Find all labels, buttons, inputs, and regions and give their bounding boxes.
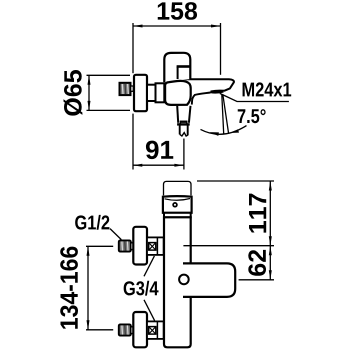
dim line 117	[269, 181, 272, 246]
lower union G3/4	[147, 321, 164, 339]
upper wall flange	[133, 227, 147, 265]
dim line 134-166	[87, 246, 90, 329]
lever handle (side view)	[164, 53, 190, 83]
label M24x1	[243, 82, 292, 96]
label G3/4	[124, 281, 159, 296]
extension lines D65	[87, 75, 131, 110]
collar	[156, 83, 165, 102]
lower wall flange	[133, 312, 147, 347]
dim text 117	[249, 194, 266, 233]
arc arrow left	[209, 132, 219, 136]
dim text D65	[64, 70, 83, 116]
leader G3/4 upper	[144, 256, 154, 276]
extension line 158 right	[220, 23, 222, 75]
upper union G3/4	[147, 237, 164, 255]
label G1/2	[75, 215, 109, 230]
dim line 158	[133, 25, 221, 28]
ring under cap	[164, 213, 191, 218]
dim text 158	[158, 2, 197, 20]
neck	[147, 85, 156, 101]
hose collar	[177, 121, 190, 124]
angle reference line vertical	[222, 94, 224, 134]
diverter circle	[179, 275, 189, 285]
extension line top (handle)	[197, 180, 274, 182]
angle line 7.5deg	[223, 94, 229, 133]
angle arc	[201, 126, 247, 135]
dim line D65	[88, 75, 91, 110]
dim line 62	[269, 246, 272, 280]
handle (front view, thin)	[164, 181, 192, 195]
leader M24x1	[220, 93, 289, 101]
spout cross-piece (front view)	[183, 263, 235, 297]
extension lines 134-166	[86, 246, 113, 329]
extension line bottom (spout center)	[239, 279, 274, 281]
extension line middle (connection center)	[183, 245, 274, 247]
hose connector with break	[180, 125, 188, 136]
cap	[163, 196, 192, 213]
dim text 134-166	[60, 247, 78, 329]
upper connection plug G1/2	[119, 240, 131, 251]
lower plug stub	[131, 327, 134, 334]
lower connection plug	[119, 324, 131, 335]
wall flange (side view)	[134, 75, 147, 111]
leader G3/4 lower	[144, 300, 155, 321]
diverter taper below body	[177, 106, 190, 123]
extension line 91 right	[183, 139, 185, 170]
body column (front view)	[164, 217, 191, 347]
arc arrow right	[230, 129, 240, 133]
dim text 91	[146, 141, 173, 160]
rod stub	[131, 86, 134, 91]
upper plug stub	[131, 243, 134, 250]
label 7.5deg	[238, 109, 266, 123]
threaded wall rod (side view)	[120, 83, 131, 95]
handle stem	[177, 67, 191, 80]
spout (side view)	[173, 79, 234, 104]
dim line 91	[133, 164, 184, 167]
mixer body (side view)	[165, 81, 191, 105]
aerator (black)	[210, 90, 224, 94]
dim text 62	[248, 250, 266, 276]
leader G1/2	[110, 229, 121, 240]
extension line 158 left	[132, 23, 134, 170]
